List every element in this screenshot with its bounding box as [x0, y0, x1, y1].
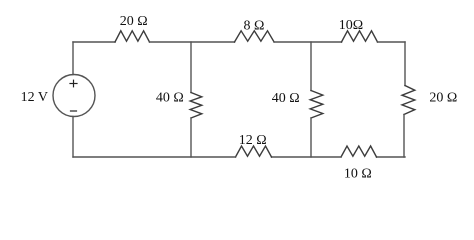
voltage source plus sign [70, 80, 77, 87]
wire top rail segment 2 [150, 41, 235, 43]
wire top rail segment 1 [73, 41, 115, 43]
resistor 8 ohm top [235, 31, 275, 42]
resistor 40 ohm branch 1 [190, 93, 202, 119]
wire middle branch 1 bottom lead [190, 118, 192, 157]
wire middle branch 1 top lead [190, 42, 192, 93]
svg-text:10Ω: 10Ω [339, 18, 363, 33]
resistor 40 ohm branch 2 [310, 91, 323, 119]
resistor 10 ohm top [342, 31, 378, 42]
wire bottom rail segment 2 [272, 156, 342, 158]
wire right side top [404, 42, 406, 86]
wire middle branch 2 bottom lead [310, 118, 312, 157]
wire top rail segment 3 [274, 41, 341, 43]
wire bottom rail segment 3 [73, 156, 236, 158]
svg-text:20 Ω: 20 Ω [429, 91, 457, 106]
voltage source 12 V [53, 75, 95, 117]
svg-text:40 Ω: 40 Ω [156, 91, 184, 106]
resistor 20 ohm top [115, 31, 150, 42]
svg-text:40 Ω: 40 Ω [272, 91, 300, 106]
svg-text:12 V: 12 V [21, 90, 48, 105]
wire right side bottom [403, 115, 405, 158]
svg-text:10 Ω: 10 Ω [344, 166, 372, 181]
svg-text:8 Ω: 8 Ω [244, 18, 265, 33]
wire source top lead [72, 42, 74, 75]
svg-text:12 Ω: 12 Ω [239, 133, 267, 148]
svg-text:20 Ω: 20 Ω [120, 14, 148, 29]
voltage source minus sign [71, 110, 77, 112]
resistor 20 ohm right [402, 86, 415, 115]
resistor 12 ohm bottom [236, 146, 272, 157]
wire top rail segment 4 [378, 41, 406, 43]
resistor 10 ohm bottom [341, 146, 377, 157]
wire source bottom lead [72, 117, 74, 158]
wire bottom rail segment 1 [377, 156, 406, 158]
wire middle branch 2 top lead [310, 42, 312, 91]
